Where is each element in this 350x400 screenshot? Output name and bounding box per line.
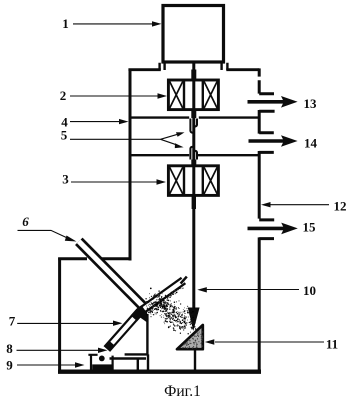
right wall segment above port 13 [258, 68, 261, 76]
svg-text:14: 14 [304, 135, 318, 150]
beam axis thick stub below coil 3 [192, 195, 196, 209]
lower chamber bottom wall [58, 370, 261, 374]
mirror 7 (bent diagonal band) [107, 281, 184, 350]
svg-text:11: 11 [326, 336, 338, 351]
crucible bracket 8 [88, 355, 112, 370]
svg-text:5: 5 [61, 128, 68, 143]
lower aperture cylinder 5 [190, 147, 197, 160]
label 9 pointer [17, 364, 76, 366]
sample holder triangle 11 [177, 325, 203, 349]
aperture plate (lower) [131, 154, 258, 156]
port 13 upper bracket [259, 80, 274, 94]
svg-text:3: 3 [62, 172, 69, 187]
aperture plate 4 (upper) [131, 116, 258, 118]
label 7 pointer [17, 322, 113, 324]
port 15 lower bracket / wall to bottom [259, 237, 274, 371]
label 2 pointer [70, 95, 158, 97]
label 3 pointer [71, 181, 157, 183]
svg-text:13: 13 [304, 96, 318, 111]
label 12 pointer [270, 204, 329, 206]
svg-text:Фиг.1: Фиг.1 [164, 383, 201, 400]
fat vacuum arrow 13 [248, 100, 285, 104]
beam axis thick stub below coil 2 [191, 110, 196, 119]
fat vacuum arrow 15 [248, 227, 285, 231]
box 1 (electron gun housing) [163, 6, 224, 63]
junction solid ink patch [134, 309, 144, 319]
label 10 pointer [207, 289, 300, 291]
heater bar 9 [92, 364, 112, 370]
magnetic lens coil 3 [168, 166, 218, 196]
beam axis thick stub above coil 3 [191, 160, 196, 167]
beam arrowhead onto sample 10 [188, 308, 200, 332]
svg-text:2: 2 [60, 88, 67, 103]
column top edge left [129, 68, 161, 71]
beam axis thick stub above coil 2 [191, 70, 196, 81]
lower chamber top edge [58, 257, 131, 260]
label 1 pointer [73, 23, 153, 25]
triangle stipple [182, 329, 203, 349]
box 1 right foot [222, 63, 228, 70]
label 6 pointer [18, 230, 69, 238]
fat vacuum arrow 14 [249, 139, 285, 143]
box 1 left foot [160, 63, 165, 70]
svg-text:12: 12 [334, 198, 347, 213]
wall bracket below port 14 [259, 151, 274, 220]
svg-text:8: 8 [6, 341, 13, 356]
svg-text:7: 7 [9, 313, 16, 328]
label 5 pointer [70, 134, 178, 145]
port 13 lower bracket / wall [259, 110, 274, 134]
lower chamber left wall [58, 258, 61, 373]
svg-text:1: 1 [62, 16, 69, 31]
junction lower wedge [140, 310, 147, 323]
vapor spray dots [145, 287, 196, 334]
label 8 pointer [17, 349, 99, 351]
column top edge right [226, 68, 259, 71]
beam axis line [192, 63, 195, 310]
sample stem [194, 350, 196, 371]
inlet tube 6 (diagonal band) [79, 241, 143, 305]
mirror pedestal [110, 314, 149, 371]
svg-text:10: 10 [303, 283, 316, 298]
crucible dot 8 [99, 356, 105, 362]
magnetic lens coil 2 [168, 80, 218, 110]
label 4 pointer [70, 121, 120, 123]
column left wall [129, 69, 132, 261]
svg-text:9: 9 [6, 358, 13, 373]
mirror 7 upper end cap [181, 277, 187, 284]
upper aperture cylinder 5 [190, 119, 197, 133]
svg-text:15: 15 [303, 220, 317, 235]
svg-text:6: 6 [22, 214, 29, 229]
label 11 pointer [215, 341, 324, 343]
